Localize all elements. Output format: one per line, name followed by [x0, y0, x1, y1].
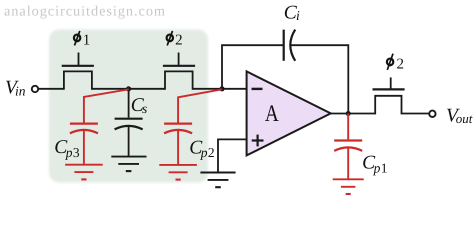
label phi1	[74, 31, 90, 49]
red parasitic wire node B to Cp2	[178, 89, 222, 122]
transistor switch M3 gate	[373, 77, 405, 89]
label Vout	[446, 106, 473, 127]
label Vin	[5, 78, 26, 99]
label Ci	[284, 3, 300, 24]
wire M2 to node B	[193, 88, 247, 90]
transistor switch M2 gate	[163, 53, 195, 66]
svg-text:analogcircuitdesign.com: analogcircuitdesign.com	[4, 4, 166, 20]
red ground below Cp2	[159, 165, 197, 180]
svg-text:1: 1	[83, 33, 91, 49]
svg-text:1: 1	[381, 160, 388, 175]
wire Ci to output node	[291, 45, 349, 113]
red parasitic wire node C to Cp1	[347, 114, 349, 140]
red parasitic wire node A to Cp3	[84, 89, 129, 122]
terminal Vout	[429, 111, 435, 117]
svg-text:3: 3	[73, 145, 80, 160]
terminal Vin	[32, 86, 38, 92]
transistor switch M1 channel	[64, 71, 92, 89]
capacitor Ci	[284, 30, 296, 61]
op-amp U1	[247, 71, 331, 155]
switched-capacitor highlight panel	[49, 30, 208, 183]
label A gain	[265, 99, 280, 126]
capacitor Cp2	[164, 124, 192, 134]
label Cp2	[189, 138, 214, 161]
node C junction dot	[346, 111, 351, 116]
red wire Cp1 to ground	[347, 149, 349, 179]
capacitor Cs wire from node A	[128, 89, 130, 118]
wire op-amp plus input to ground	[218, 139, 247, 171]
red wire Cp3 to ground	[83, 131, 85, 164]
ground below Cs	[111, 157, 146, 172]
capacitor Cp1	[334, 141, 362, 151]
capacitor Cp3	[70, 124, 98, 134]
node B junction dot	[219, 86, 224, 91]
wire Cs to ground	[128, 127, 130, 156]
svg-text:in: in	[15, 83, 26, 98]
label phi2	[167, 31, 183, 49]
op-amp U1 plus pin mark	[252, 135, 264, 147]
op-amp U1 minus pin mark	[252, 88, 263, 90]
label phi2 at M3	[387, 54, 404, 73]
ground at op-amp plus input	[200, 173, 235, 188]
wire op-amp output to switch M3	[331, 113, 376, 115]
node A junction dot	[126, 86, 131, 91]
wire Vin to switch M1	[38, 88, 64, 90]
svg-text:p: p	[373, 160, 381, 175]
transistor switch M1 gate	[62, 53, 94, 66]
label Cs	[131, 95, 147, 116]
transistor switch M3 channel	[375, 96, 401, 115]
svg-text:i: i	[296, 8, 300, 23]
wire node B to feedback top	[222, 45, 284, 89]
svg-text:2: 2	[397, 56, 405, 72]
watermark analogcircuitdesign.com	[4, 4, 166, 20]
svg-text:A: A	[265, 99, 280, 126]
svg-text:out: out	[456, 111, 473, 126]
label Cp1	[362, 153, 387, 176]
wire M3 to Vout terminal	[402, 113, 430, 115]
red ground below Cp1	[333, 179, 364, 194]
wire M1 to node A	[92, 88, 165, 90]
svg-text:p: p	[200, 145, 208, 160]
red wire Cp2 to ground	[177, 131, 179, 164]
label Cp3	[54, 137, 80, 160]
transistor switch M2 channel	[165, 71, 193, 89]
svg-text:2: 2	[208, 145, 215, 160]
svg-text:p: p	[65, 145, 73, 160]
red ground below Cp3	[65, 165, 103, 180]
capacitor Cs	[115, 119, 143, 130]
svg-text:s: s	[142, 101, 147, 116]
svg-text:2: 2	[175, 33, 183, 49]
